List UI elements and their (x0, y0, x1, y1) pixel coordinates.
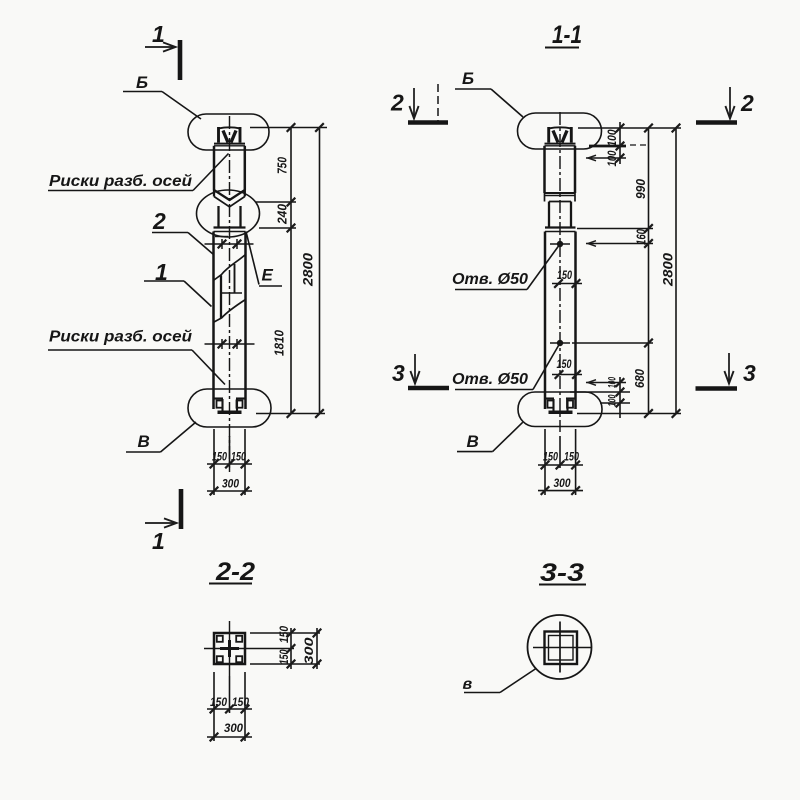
hole 2 (550, 340, 570, 346)
top stadium callout (188, 114, 269, 150)
section title 3-3 (539, 559, 586, 587)
crown lifting fork top right (545, 127, 576, 146)
section cut marker 3 (right) (696, 353, 757, 389)
callout label B top right (455, 69, 523, 117)
item leader 1 (144, 259, 212, 307)
hole 2 dim 150 (552, 357, 582, 379)
item leader 2 (152, 208, 214, 255)
hole 1 label (452, 244, 560, 290)
section cut marker 1 (top) (145, 21, 180, 80)
svg-text:100: 100 (607, 376, 619, 388)
svg-text:990: 990 (633, 178, 648, 199)
hole 1 (550, 241, 570, 247)
svg-text:Риски разб. осей: Риски разб. осей (49, 173, 192, 190)
svg-text:750: 750 (275, 156, 290, 174)
hole 2 extension (572, 342, 653, 344)
extension line y158 (586, 155, 626, 161)
svg-text:300: 300 (302, 637, 316, 664)
svg-text:Е: Е (262, 266, 274, 285)
callout label B bottom right (457, 422, 523, 451)
svg-text:Отв. Ø50: Отв. Ø50 (452, 371, 528, 388)
svg-text:2800: 2800 (661, 252, 676, 287)
lower shaft top lines (214, 226, 246, 228)
svg-text:3-3: 3-3 (540, 559, 584, 587)
svg-text:160: 160 (634, 228, 649, 245)
svg-text:150: 150 (212, 450, 227, 464)
dimension line 750/240/1810 (272, 123, 296, 418)
lower shaft top lines right view (545, 226, 576, 228)
svg-text:150: 150 (232, 695, 249, 709)
right dims 150/150/300 of section 2-2 (250, 626, 321, 669)
section cut marker 2 (right) (696, 87, 754, 123)
circle column section (528, 615, 592, 679)
svg-text:Риски разб. осей: Риски разб. осей (49, 329, 192, 346)
dim line 990/160/680 (632, 124, 653, 418)
centerlines (229, 621, 231, 676)
svg-text:150: 150 (564, 450, 579, 464)
svg-text:3: 3 (392, 360, 405, 386)
svg-text:В: В (467, 432, 479, 451)
dash fragment y145 (630, 144, 646, 146)
svg-text:100: 100 (605, 129, 619, 146)
svg-text:300: 300 (554, 476, 571, 490)
right dimension chain: datum lines (250, 127, 327, 129)
svg-text:150: 150 (210, 695, 227, 709)
rebar bar 2 (234, 264, 236, 293)
svg-text:150: 150 (557, 268, 572, 282)
top datum extension (578, 127, 681, 129)
bottom stadium callout right (518, 392, 602, 427)
neck edges right view (548, 202, 550, 228)
bottom anchor channel (214, 399, 246, 413)
axis risk marks upper (205, 239, 254, 249)
stirrup line (221, 292, 242, 294)
svg-text:150: 150 (543, 450, 558, 464)
top stadium callout right (518, 113, 602, 149)
svg-text:680: 680 (632, 368, 647, 388)
hole 1 dim 150 (552, 268, 582, 288)
upper body edges right view (543, 146, 546, 193)
svg-text:150: 150 (277, 649, 291, 664)
column centerline (229, 116, 231, 472)
centerlines (559, 622, 561, 673)
svg-text:150: 150 (231, 450, 246, 464)
hole 2 label (452, 343, 560, 390)
bottom datum extension right view (577, 413, 681, 415)
lower shaft edges right view (544, 232, 547, 410)
bottom width dimensions (207, 429, 252, 495)
joint ellipse callout (197, 190, 260, 237)
scarf joint chevron (214, 190, 245, 207)
dim line 100/100 top (605, 122, 624, 167)
svg-text:2: 2 (740, 90, 754, 116)
broken-out section break line bottom (214, 300, 246, 323)
svg-text:1: 1 (152, 528, 165, 554)
dimension line 2800 (301, 123, 324, 418)
svg-text:2-2: 2-2 (215, 558, 255, 586)
svg-text:Отв. Ø50: Отв. Ø50 (452, 271, 528, 288)
svg-text:240: 240 (275, 203, 290, 225)
inner square (549, 636, 574, 661)
label risk axes upper (48, 154, 229, 191)
dim line 2800 right (661, 124, 681, 418)
outer square (545, 632, 578, 665)
callout label v (463, 669, 537, 694)
column square outline (214, 633, 245, 664)
axis risk marks lower (205, 339, 255, 349)
svg-text:Б: Б (462, 69, 474, 88)
crown base extension thick (589, 145, 626, 148)
svg-text:2: 2 (390, 90, 404, 116)
bottom dims 150/150/300 of section 2-2 (207, 672, 252, 741)
label risk axes lower (48, 329, 225, 385)
svg-text:В: В (138, 432, 150, 451)
svg-text:300: 300 (224, 721, 243, 735)
svg-text:в: в (463, 676, 473, 693)
section cut marker 3 (left) (392, 354, 449, 388)
bottom extensions 100/100 (570, 380, 630, 403)
section cut marker 2 (left) (390, 84, 448, 123)
bottom stadium callout (188, 389, 271, 427)
upper column body edges (213, 146, 216, 190)
svg-text:1810: 1810 (272, 329, 287, 356)
broken-out section break line top (214, 255, 246, 281)
dim line 100/100 bottom (607, 376, 625, 418)
svg-text:3: 3 (743, 360, 756, 386)
lower shaft edges (212, 232, 215, 410)
bold axis cross (228, 640, 231, 657)
svg-text:100: 100 (607, 394, 619, 407)
svg-text:Б: Б (136, 73, 148, 92)
neck section edges (217, 206, 219, 228)
section title 2-2 (209, 558, 255, 586)
svg-text:100: 100 (605, 150, 619, 166)
column centerline right view (559, 112, 561, 432)
svg-text:150: 150 (277, 626, 291, 643)
svg-text:150: 150 (557, 357, 572, 371)
crown lifting fork top (214, 127, 245, 146)
svg-text:2800: 2800 (301, 252, 316, 287)
joint collar lines (545, 193, 576, 202)
svg-text:1-1: 1-1 (552, 21, 582, 49)
callout label B top (123, 73, 201, 119)
rebar corner squares (217, 636, 223, 642)
extension 160 bottom (586, 241, 653, 247)
callout label B bottom (126, 422, 196, 452)
extension 160 top (577, 228, 653, 230)
rebar bar in break-out (220, 276, 222, 319)
svg-text:2: 2 (152, 208, 166, 234)
section cut marker 1 (bottom) (145, 489, 181, 554)
view title 1-1 (545, 21, 582, 49)
svg-text:300: 300 (222, 477, 239, 491)
bottom anchor channel right view (545, 399, 576, 413)
item leader E (246, 232, 282, 287)
bottom width dimensions right view (538, 429, 583, 495)
